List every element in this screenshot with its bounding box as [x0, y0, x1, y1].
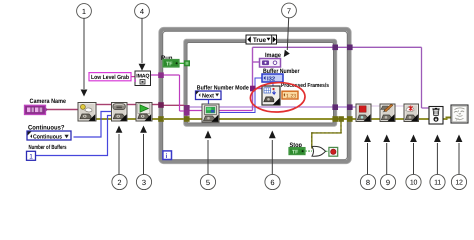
tunnel: loop-left magenta: [158, 72, 164, 78]
node 5: IMAQ extract/grab buffer: [202, 104, 219, 122]
callout circle 5: [200, 131, 215, 190]
tunnel: case-right olive: [332, 116, 338, 122]
callout circle 1: [77, 4, 92, 97]
annotation: red ellipse: [250, 82, 306, 113]
svg-text:Continuous?: Continuous?: [28, 124, 65, 131]
svg-text:7: 7: [287, 6, 291, 15]
wire: blue buffer number from node5 to indicator: [219, 78, 273, 113]
tunnel: loop-right olive: [347, 116, 353, 122]
svg-text:IMAQ: IMAQ: [136, 73, 149, 79]
svg-text:True: True: [253, 37, 266, 44]
tunnel: loop-right violet top: [347, 45, 353, 51]
wire: pink camera session (left row): [46, 105, 185, 110]
string constant: Low Level Grab: [89, 73, 135, 82]
wire: olive branch to Or gate: [312, 121, 342, 149]
tunnel: case-right violet: [332, 104, 338, 110]
node 6: IMAQ copy/extract inside case: [262, 86, 280, 105]
svg-text:1.23: 1.23: [286, 93, 296, 99]
svg-text:TF: TF: [292, 149, 298, 155]
tunnel: case-right violet top: [332, 45, 338, 51]
wire: violet faint links right row: [371, 105, 404, 107]
control: continuous enum: [27, 131, 71, 140]
node 12: simple error handler: [451, 105, 468, 123]
tunnel: loop-left pink session: [158, 102, 164, 108]
case structure: [184, 39, 337, 126]
wire: green run to case selector: [179, 62, 184, 64]
svg-text:I32: I32: [267, 76, 275, 83]
svg-text:1: 1: [29, 154, 33, 161]
svg-text:Buffer Number Mode: Buffer Number Mode: [197, 84, 250, 91]
wire: olive error main run (left row): [96, 118, 451, 120]
junction: olive branch: [338, 116, 344, 122]
node 9: IMAQ unconfigure: [380, 104, 395, 122]
svg-text:10: 10: [410, 180, 418, 187]
svg-text:1: 1: [82, 7, 86, 16]
wire: magenta from node4 down into case: [151, 75, 253, 111]
callout circle 9: [380, 135, 395, 190]
loop iteration terminal [i]: [163, 151, 172, 160]
svg-text:4: 4: [140, 7, 144, 16]
wire: blue continuous: [74, 112, 112, 138]
wire: green stop to or gate: [305, 150, 312, 152]
svg-text:i: i: [166, 153, 168, 160]
or gate: [312, 146, 326, 156]
callout circle 12: [451, 135, 466, 190]
node 10: IMAQ close: [404, 104, 419, 122]
svg-text:12: 12: [455, 180, 463, 187]
control: number of buffers numeric: [27, 151, 36, 160]
callout circle 7: [282, 3, 297, 57]
case selector label "True": [246, 35, 277, 44]
svg-text:3: 3: [142, 178, 146, 187]
indicator: processed frames orange: [282, 91, 298, 99]
tunnel: case-left green selector: [184, 60, 190, 66]
wire: magenta vertical to image terminal and top wire: [253, 47, 263, 110]
node 11: IMAQ dispose: [429, 107, 443, 125]
node 3: IMAQ Start: [136, 103, 152, 122]
wire: blue next enum to node5: [208, 100, 210, 105]
svg-text:8: 8: [366, 178, 370, 187]
svg-text:11: 11: [434, 180, 441, 187]
tunnel: case-left violet: [184, 105, 190, 111]
control: run boolean terminal: [163, 60, 179, 68]
callout circle 8: [360, 135, 375, 190]
callout circle 11: [430, 135, 445, 190]
tunnel: case-left magenta: [184, 110, 190, 116]
constant: Next enum: [196, 91, 222, 100]
tunnel: loop-left olive: [158, 116, 164, 122]
svg-text:Continuous: Continuous: [33, 133, 63, 140]
indicator: image terminal: [260, 59, 281, 68]
wire: violet top wire to dispose node: [253, 47, 430, 108]
wire: green or gate to condition terminal: [326, 150, 330, 152]
node 1: IMAQ Init: [78, 103, 96, 122]
callout circle 4: [135, 4, 150, 71]
svg-text:TF: TF: [166, 62, 173, 68]
svg-text:2: 2: [117, 178, 121, 187]
indicator: buffer number I32: [262, 74, 283, 83]
node 4: IMAQ grab setup: [134, 71, 150, 86]
node 2: IMAQ Configure List: [112, 103, 128, 122]
svg-text:Next: Next: [202, 92, 214, 99]
svg-text:Low Level Grab: Low Level Grab: [91, 74, 129, 81]
callout circle 3: [136, 126, 151, 190]
tunnel: loop-right violet: [347, 104, 353, 110]
wire: blue number of buffers: [36, 116, 112, 156]
control: camera name terminal: [25, 105, 48, 114]
while loop: [159, 27, 351, 163]
wire: violet image/session run inside case: [190, 106, 357, 108]
svg-text:6: 6: [270, 178, 274, 187]
junction: magenta at grab node: [250, 86, 256, 92]
callout circle 6: [265, 131, 280, 190]
node 8: IMAQ stop acquisition: [356, 104, 371, 122]
svg-text:5: 5: [206, 178, 210, 187]
svg-text:9: 9: [386, 178, 390, 187]
svg-text:Camera Name: Camera Name: [30, 98, 67, 105]
callout circle 10: [406, 135, 421, 190]
tunnel: case-left olive: [184, 116, 190, 122]
callout circle 2: [112, 126, 127, 190]
loop condition terminal: [329, 147, 338, 156]
control: stop boolean terminal: [289, 148, 305, 156]
svg-text:Number of Buffers: Number of Buffers: [29, 144, 67, 151]
